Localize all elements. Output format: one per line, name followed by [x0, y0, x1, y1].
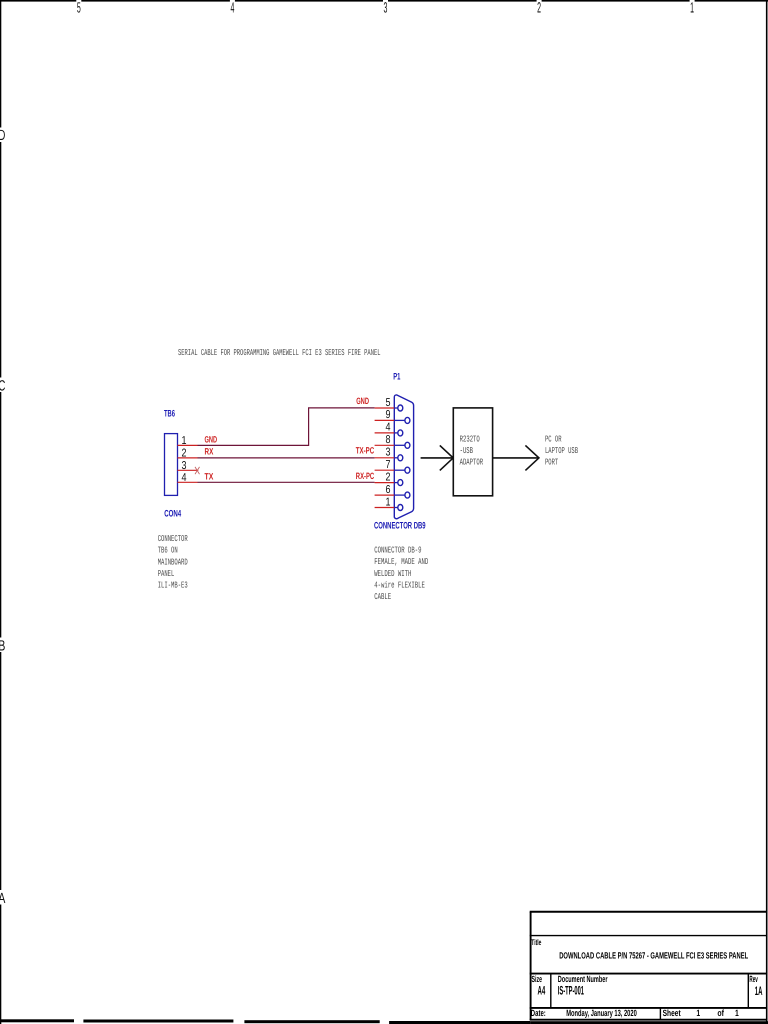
svg-text:4: 4 — [230, 1, 234, 17]
svg-text:Title: Title — [531, 938, 541, 947]
P1 pin 6 — [375, 484, 410, 498]
svg-text:2: 2 — [386, 471, 391, 483]
border frame right edge — [766, 0, 768, 1024]
svg-text:FEMALE, MADE AND: FEMALE, MADE AND — [374, 557, 428, 567]
svg-text:ADAPTOR: ADAPTOR — [460, 458, 484, 468]
svg-text:A: A — [0, 891, 5, 907]
svg-text:SERIAL CABLE FOR PROGRAMMING G: SERIAL CABLE FOR PROGRAMMING GAMEWELL FC… — [178, 348, 381, 358]
svg-text:2: 2 — [182, 448, 187, 460]
svg-text:1: 1 — [696, 1008, 700, 1018]
svg-text:6: 6 — [386, 484, 391, 496]
svg-text:Monday, January 13, 2020: Monday, January 13, 2020 — [566, 1008, 637, 1018]
arrow from adaptor to PC — [493, 445, 539, 470]
svg-text:B: B — [0, 639, 5, 655]
svg-text:MAINBOARD: MAINBOARD — [158, 557, 188, 567]
svg-text:5: 5 — [386, 397, 391, 409]
svg-text:C: C — [0, 379, 6, 395]
svg-text:7: 7 — [386, 459, 391, 471]
border frame top edge segments — [0, 0, 768, 2]
svg-text:1: 1 — [735, 1008, 739, 1018]
note text under CON4 — [158, 534, 188, 591]
P1 pin 8 — [375, 434, 410, 448]
svg-text:TB6: TB6 — [164, 408, 175, 419]
wire TX net (TB6-4 to P1-2) — [198, 481, 375, 483]
svg-text:RX: RX — [205, 446, 214, 456]
connector TB6 body — [165, 434, 178, 496]
svg-text:A4: A4 — [538, 983, 546, 997]
block U1 RS232-USB adaptor — [453, 408, 492, 496]
svg-text:LAPTOP USB: LAPTOP USB — [545, 446, 578, 456]
TB6 pin 2 stub — [178, 457, 198, 459]
arrow from P1 to adaptor — [421, 445, 454, 470]
P1 pin 2 — [375, 471, 403, 485]
svg-text:RX-PC: RX-PC — [356, 471, 375, 481]
svg-text:4-wire FLEXIBLE: 4-wire FLEXIBLE — [374, 581, 425, 591]
P1 pin 1 — [375, 496, 403, 510]
svg-text:-USB: -USB — [460, 446, 474, 456]
border frame left edge segments — [0, 0, 1, 1024]
svg-text:3: 3 — [384, 1, 388, 17]
P1 pin 4 — [375, 422, 403, 436]
svg-text:2: 2 — [537, 1, 541, 17]
connector P1 DB9 body — [394, 395, 413, 519]
title block texts — [531, 938, 763, 1018]
svg-text:1: 1 — [690, 1, 694, 17]
TB6 pin 1 stub — [178, 444, 198, 446]
P1 pin 9 — [375, 409, 410, 423]
note PC OR LAPTOP USB PORT — [545, 434, 578, 467]
svg-text:CABLE: CABLE — [374, 592, 391, 602]
svg-text:GND: GND — [356, 396, 369, 406]
svg-text:8: 8 — [386, 434, 391, 446]
svg-text:Sheet: Sheet — [663, 1008, 681, 1018]
P1 pin 3 — [375, 447, 403, 461]
svg-text:Rev: Rev — [749, 974, 757, 984]
svg-text:CONNECTOR: CONNECTOR — [158, 534, 188, 544]
svg-text:5: 5 — [77, 1, 81, 17]
wire RX net (TB6-2 to P1-3) — [198, 457, 375, 459]
svg-text:CONNECTOR DB-9: CONNECTOR DB-9 — [374, 545, 421, 555]
svg-text:D: D — [0, 128, 5, 144]
svg-text:4: 4 — [386, 422, 391, 434]
svg-text:R232TO: R232TO — [460, 434, 480, 444]
svg-text:Date:: Date: — [531, 1008, 546, 1018]
P1 pin 7 — [375, 459, 410, 473]
svg-text:4: 4 — [182, 472, 187, 484]
svg-text:3: 3 — [386, 447, 391, 459]
svg-text:1: 1 — [182, 435, 187, 447]
P1 pin 5 — [375, 397, 403, 411]
svg-text:TB6 ON: TB6 ON — [158, 546, 178, 556]
svg-text:PANEL: PANEL — [158, 569, 175, 579]
svg-text:of: of — [717, 1008, 724, 1018]
svg-text:CON4: CON4 — [164, 508, 181, 519]
svg-text:TX-PC: TX-PC — [356, 446, 375, 456]
svg-text:WELDED WITH: WELDED WITH — [374, 569, 411, 579]
no-connect X on TB6 pin 3 — [195, 467, 200, 474]
svg-text:1: 1 — [386, 496, 391, 508]
note text under DB9 — [374, 545, 428, 602]
svg-text:CONNECTOR DB9: CONNECTOR DB9 — [374, 520, 426, 531]
svg-text:PC OR: PC OR — [545, 434, 562, 444]
svg-text:ILI-MB-E3: ILI-MB-E3 — [158, 581, 188, 591]
TB6 pin 3 stub — [178, 469, 199, 471]
svg-text:IS-TP-001: IS-TP-001 — [558, 983, 584, 997]
svg-text:P1: P1 — [393, 371, 401, 382]
svg-text:3: 3 — [182, 460, 187, 472]
svg-text:1A: 1A — [755, 984, 763, 998]
wire GND net (TB6-1 to P1-5) — [198, 408, 375, 446]
svg-text:TX: TX — [205, 472, 214, 482]
svg-text:GND: GND — [205, 435, 218, 445]
svg-text:9: 9 — [386, 409, 391, 421]
svg-text:PORT: PORT — [545, 458, 559, 468]
border frame bottom line segments — [0, 1019, 768, 1024]
TB6 pin 4 stub — [178, 481, 198, 483]
adaptor text — [460, 434, 484, 467]
title block frame — [530, 912, 767, 1020]
svg-text:DOWNLOAD CABLE P/N 75267 - GAM: DOWNLOAD CABLE P/N 75267 - GAMEWELL FCI … — [559, 950, 748, 960]
